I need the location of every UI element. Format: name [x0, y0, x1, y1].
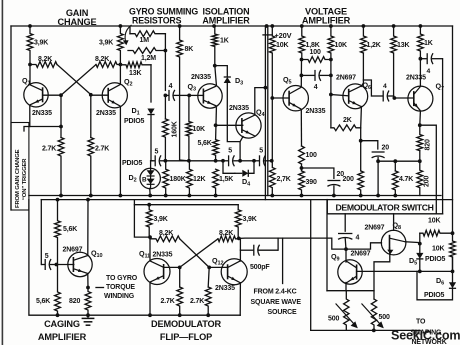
node line2/5.6K upper: [56, 198, 60, 202]
wire switch box left: [326, 200, 328, 214]
wire FF top rail: [134, 204, 238, 206]
diode pair D2 in circle: [140, 168, 160, 188]
svg-text:5,6K: 5,6K: [198, 140, 212, 147]
resistor 2.7K Q1: [58, 138, 64, 196]
label 8.2K (a): [38, 56, 52, 63]
wire 2.4KC source line: [282, 238, 284, 283]
label 2.7K (Q1): [42, 146, 56, 153]
node net 5.6K/1.5K: [214, 159, 218, 163]
transistor Q5 2N335: [283, 86, 308, 111]
node 100h right: [329, 58, 333, 62]
node Q9 collector / Q8 base: [344, 247, 348, 251]
wire 4.7K stub: [394, 161, 396, 171]
capacitor 20 (Q6 emitter): [372, 152, 385, 196]
label 1K (VA): [424, 40, 433, 47]
wire Q2 collector to circle: [119, 65, 121, 85]
svg-text:10K: 10K: [428, 218, 440, 225]
node 1.5K bus: [214, 194, 218, 198]
node 390 bus: [300, 194, 304, 198]
node 2.7K-a bus: [59, 194, 63, 198]
label 2.7K (VA): [277, 176, 291, 183]
wire Q3 emitter down: [215, 108, 218, 140]
transistor Q3 2N335: [198, 84, 222, 108]
wire Q5 base line down: [271, 98, 273, 161]
svg-text:20: 20: [382, 145, 390, 152]
node Q9base/right edge: [451, 270, 455, 274]
wire FF rail: [134, 200, 150, 238]
node Q11 emitter rail: [148, 313, 152, 317]
node rail/1K iso: [212, 24, 216, 28]
node wire161/4.7K: [393, 159, 397, 163]
svg-text:5: 5: [259, 148, 263, 155]
title GYRO SUMMING RESISTORS line1: [129, 7, 198, 17]
resistor 8.2K cross-couple a: [30, 62, 57, 68]
resistor 100 Q5 emitter: [299, 146, 305, 164]
label 2N335 (Q7): [406, 75, 426, 82]
svg-text:1,5K: 1,5K: [219, 176, 233, 183]
svg-text:5: 5: [228, 148, 232, 155]
svg-text:1K: 1K: [220, 38, 229, 45]
title DEMODULATOR FLIP-FLOP line2: [160, 332, 212, 342]
node Q7 emitter branch: [418, 123, 422, 127]
node Q2 emitter bus: [119, 194, 123, 198]
resistor 10K VA2: [328, 26, 334, 95]
label 500 (pot R): [379, 314, 390, 321]
node rail/8K: [178, 24, 182, 28]
title GAIN CHANGE line1: [66, 8, 89, 18]
resistor 2.7K VA: [269, 161, 275, 196]
svg-text:8,2K: 8,2K: [38, 56, 52, 63]
svg-text:3,9K: 3,9K: [243, 216, 257, 223]
node 4.7K bus: [393, 194, 397, 198]
wire Q8 collector to D5 node: [405, 241, 419, 244]
label 2N335 (Q12): [215, 285, 235, 292]
wire Q7 emitter to demod switch: [420, 125, 437, 214]
label 820 rotated: [425, 139, 432, 150]
title ISOLATION AMPLIFIER line1: [203, 7, 250, 17]
label TORQUE: [106, 284, 135, 291]
label D3: [235, 76, 243, 87]
svg-text:4: 4: [314, 84, 318, 91]
label +20V: [275, 31, 292, 40]
label 2K: [343, 117, 352, 124]
label 12K: [193, 176, 205, 183]
svg-text:200: 200: [343, 176, 354, 183]
label 10K (iso): [193, 126, 205, 133]
resistor 160K: [163, 119, 169, 161]
resistor 1.8K: [299, 26, 305, 60]
ground symbol: [82, 315, 95, 325]
label 4 (iso cap): [169, 83, 173, 90]
svg-text:PDIO5: PDIO5: [424, 292, 445, 299]
label 2N697 (Q8): [365, 225, 385, 232]
wire net a-b: [165, 160, 223, 162]
label Q5: [283, 75, 292, 86]
label 4 (demod cap): [427, 68, 431, 75]
svg-text:AMPLIFIER: AMPLIFIER: [38, 332, 87, 342]
resistor 820 VA: [417, 125, 423, 151]
title VOLTAGE AMPLIFIER line1: [305, 7, 347, 17]
svg-text:5: 5: [155, 149, 159, 156]
label 500 (pot L): [328, 316, 339, 323]
title GYRO SUMMING RESISTORS line2: [132, 16, 182, 26]
resistor 10K iso: [186, 95, 192, 160]
wire FF to switch over-wire: [239, 238, 346, 249]
transistor Q9 2N697: [338, 260, 362, 284]
label Q2: [124, 77, 133, 88]
wire 20cap1 branch: [302, 168, 334, 178]
svg-text:500: 500: [328, 316, 339, 323]
resistor 12K: [187, 161, 193, 196]
node pot R bottom: [372, 329, 376, 333]
label 5 (net-c): [259, 148, 263, 155]
svg-text:5,6K: 5,6K: [36, 298, 50, 305]
wire Q9 base long lead: [357, 270, 453, 272]
label 8K: [185, 46, 194, 53]
svg-text:5,6K: 5,6K: [63, 226, 77, 233]
label 10K (VA2): [335, 42, 347, 49]
svg-text:12K: 12K: [193, 176, 205, 183]
wire to gyro dash: [96, 287, 104, 289]
wire D1 to net: [150, 115, 152, 161]
wire Q4 collector to +20V line: [255, 88, 266, 115]
svg-text:820: 820: [425, 139, 432, 150]
wire Q1 collector to circle: [29, 65, 31, 85]
label ON TRIGGER rotated: [22, 158, 28, 200]
wire +20V tick: [263, 34, 272, 36]
label 1M: [140, 37, 150, 44]
wire Q8 base jog: [346, 243, 382, 249]
title DEMODULATOR FLIP-FLOP line1: [151, 319, 221, 329]
resistor 2.7K FF-R: [205, 287, 211, 315]
svg-text:2N697: 2N697: [336, 75, 356, 82]
diode D1 PD105: [147, 109, 154, 115]
node 180K bus: [164, 194, 168, 198]
wire Q10 collector up: [87, 200, 89, 255]
label 10K (demod v): [432, 246, 444, 253]
node 1M/1.2M junction: [164, 49, 168, 53]
svg-text:10K: 10K: [335, 42, 347, 49]
label 500pF: [250, 264, 270, 271]
transistor Q11 2N335: [144, 259, 170, 285]
label D4: [242, 177, 251, 188]
transistor Q10 2N697: [68, 252, 92, 276]
node 12K bus: [188, 194, 192, 198]
wire right edge D6 segment: [452, 257, 454, 282]
label 5 (caging): [45, 253, 49, 260]
svg-text:20: 20: [337, 171, 345, 178]
resistor 5.6K caging lower: [55, 265, 61, 316]
label Q9: [331, 252, 340, 263]
resistor 5.6K iso: [213, 140, 219, 161]
node rail/1.2K: [362, 24, 366, 28]
svg-text:100: 100: [306, 152, 317, 159]
wire summing node down 160K: [164, 95, 166, 119]
pot arrow right: [362, 304, 384, 329]
resistor 3.9K FF left: [146, 205, 152, 237]
svg-text:2.7K: 2.7K: [190, 298, 204, 305]
node wire161/20cap2: [376, 159, 380, 163]
node Q3 base: [187, 94, 191, 98]
wire cap4c jog: [363, 80, 371, 96]
wire Q12 collector: [239, 238, 241, 261]
label 13K: [129, 70, 141, 77]
svg-text:10K: 10K: [432, 246, 444, 253]
label SQUARE WAVE: [251, 299, 302, 306]
wire +20V vertical B: [267, 26, 269, 196]
resistor 10K VA1: [269, 26, 275, 98]
capacitor 5 net-c: [254, 155, 272, 166]
node rail +20V: [265, 24, 269, 28]
wire branch to D3: [215, 66, 228, 76]
wire 100 to 390: [301, 164, 303, 171]
label 5.6K (iso): [198, 140, 212, 147]
svg-text:+20V: +20V: [275, 31, 292, 40]
label 20 (Q6): [382, 145, 390, 152]
svg-text:SeekIC.com: SeekIC.com: [391, 329, 460, 343]
label Q3: [188, 82, 197, 93]
svg-text:SOURCE: SOURCE: [268, 309, 298, 316]
node net Q4 emitter: [238, 159, 242, 163]
node cap4a right: [329, 74, 333, 78]
label 2N335 (Q2): [96, 110, 116, 117]
wire D3 down to Q4 emitter node: [227, 84, 240, 161]
node cap4a left: [300, 74, 304, 78]
node 200a bus: [359, 194, 363, 198]
label 2N335 (Q4): [229, 105, 249, 112]
wire 8K bottom to node: [180, 159, 189, 162]
label 13K (VA): [397, 42, 409, 49]
wire Q7 emitter down: [419, 111, 422, 125]
capacitor 4 to demod: [420, 53, 442, 64]
label 1K (iso): [220, 38, 229, 45]
wire 1M left stub: [129, 27, 131, 34]
wire Q9 collector stub: [345, 249, 347, 262]
label 10K (demod h): [428, 218, 440, 225]
svg-text:1,2K: 1,2K: [367, 42, 381, 49]
svg-text:8,2K: 8,2K: [95, 56, 109, 63]
label 100 (h): [310, 49, 321, 56]
wire Q6 base lead: [331, 95, 349, 96]
wire pots bottom: [311, 329, 420, 331]
label 2N335 (Q3): [191, 74, 211, 81]
svg-text:10K: 10K: [193, 126, 205, 133]
capacitor 5 net-a: [151, 155, 166, 166]
wire main emitter bus: [29, 195, 441, 197]
label Q11: [139, 249, 150, 260]
svg-text:DEMODULATOR: DEMODULATOR: [151, 319, 221, 329]
svg-text:3,9K: 3,9K: [99, 40, 113, 47]
node 100/390/20cap1: [300, 166, 304, 170]
transistor Q6 2N697: [343, 84, 368, 109]
node Q11 collector/8.2K-L: [148, 235, 152, 239]
svg-text:AMPLIFIER: AMPLIFIER: [302, 16, 351, 26]
svg-text:8,2K: 8,2K: [159, 230, 173, 237]
wire 820 to junction: [419, 151, 421, 162]
label Q6: [363, 81, 372, 92]
svg-text:CHANGE: CHANGE: [58, 17, 97, 27]
wire D5 bottom: [419, 259, 421, 272]
wire Q4 emitter stub: [240, 137, 243, 142]
resistor 8.2K FF left: [150, 236, 180, 242]
transistor Q12 2N335: [221, 259, 247, 285]
title GAIN CHANGE line2: [58, 17, 97, 27]
node Q5 base: [270, 96, 274, 100]
transistor Q1 2N335: [24, 83, 48, 107]
resistor 1K VA: [418, 26, 424, 59]
title DEMODULATOR SWITCH: [336, 203, 434, 213]
wire +20V vertical A: [264, 26, 266, 200]
wire 500pF tap: [240, 249, 253, 251]
label Q4: [256, 108, 266, 119]
svg-text:10K: 10K: [276, 42, 288, 49]
wire D4 loop left: [223, 161, 235, 174]
resistor 2.7K FF-L: [177, 287, 183, 315]
resistor 8.2K FF right: [218, 236, 239, 242]
svg-text:2K: 2K: [343, 117, 352, 124]
resistor 4.7K: [392, 171, 398, 196]
svg-text:2N697: 2N697: [351, 251, 371, 258]
wire D2 top lead: [150, 161, 152, 169]
label 5.6K lower: [36, 298, 50, 305]
transistor Q8 2N697: [381, 230, 406, 255]
wire Q6 emitter down: [360, 107, 363, 171]
wire 500pF riser: [277, 238, 279, 250]
svg-text:100: 100: [310, 49, 321, 56]
svg-text:2N697: 2N697: [63, 247, 83, 254]
transistor Q4 2N335: [236, 113, 261, 138]
node rail/10K-va1: [270, 24, 274, 28]
title VOLTAGE AMPLIFIER line2: [302, 16, 351, 26]
wire Q12 emitter down: [239, 283, 241, 315]
label 8.2K (b): [95, 56, 109, 63]
wire Q12 base down: [208, 267, 209, 287]
svg-text:8K: 8K: [185, 46, 194, 53]
node bottom rail 5.6K: [56, 313, 60, 317]
wire Q1 base lead: [43, 94, 61, 96]
svg-text:3,9K: 3,9K: [34, 40, 48, 47]
label WINDING: [104, 293, 135, 300]
label Q12: [212, 256, 223, 267]
svg-text:FROM 2.4-KC: FROM 2.4-KC: [254, 289, 297, 296]
node rail/Q2 collector: [119, 24, 123, 28]
wire cap4e feed: [344, 214, 346, 231]
label 2.7K (FF-R): [190, 298, 204, 305]
node Q4 base on Q3 emitter line: [214, 123, 218, 127]
label 5.6K upper: [63, 226, 77, 233]
wire Q10 base lead: [56, 264, 73, 266]
label 820 (caging): [69, 298, 80, 305]
node Q3 collector / D3 branch: [213, 64, 217, 68]
node net 8K/10K/12K: [187, 159, 191, 163]
wire Q5 emitter down: [300, 110, 302, 146]
diode D6 PD105: [449, 282, 456, 288]
node rail/1K-va: [419, 24, 423, 28]
node 20cap1 bus: [332, 194, 336, 198]
capacitor 5 net-b: [223, 155, 240, 166]
resistor 13K: [120, 62, 151, 68]
capacitor 20 (390): [327, 181, 340, 196]
svg-text:PDIO5: PDIO5: [124, 118, 145, 125]
label 3.9K (Q1): [34, 40, 48, 47]
pot 500 right: [371, 299, 376, 330]
svg-text:2,7K: 2,7K: [277, 176, 291, 183]
wire 1.8K to Q5 collector: [300, 60, 302, 87]
node 2.7K FF-R rail: [206, 313, 210, 317]
node net D4 right: [252, 159, 256, 163]
wire emitter junction net: [378, 160, 420, 162]
node D2 bus: [148, 194, 152, 198]
node 10Kh right edge: [451, 231, 455, 235]
node Q6 emitter / 20cap branch: [359, 139, 363, 143]
node Q1 collector / 8.2K-a: [28, 63, 32, 67]
svg-text:4.7K: 4.7K: [399, 176, 413, 183]
svg-text:160K: 160K: [172, 121, 179, 137]
wire diagonal FF-R: [180, 239, 218, 268]
resistor 3.9K Q2 collector load: [118, 26, 124, 65]
svg-text:1,8K: 1,8K: [306, 42, 320, 49]
svg-text:TO GYRO: TO GYRO: [106, 275, 138, 282]
resistor 2K: [331, 125, 361, 131]
title CAGING AMPLIFIER line1: [44, 319, 80, 329]
node net Q5 base chain: [270, 159, 274, 163]
resistor 100 horizontal: [302, 57, 331, 63]
svg-text:2N335: 2N335: [306, 108, 326, 115]
label 2N335 (Q5): [306, 108, 326, 115]
wire Q2 base node down to 2.7K: [90, 95, 92, 138]
svg-text:2N335: 2N335: [229, 105, 249, 112]
transistor Q7 2N335: [408, 86, 433, 111]
resistor 3.9K FF right: [235, 210, 241, 239]
svg-text:4: 4: [427, 68, 431, 75]
label Q1: [22, 76, 31, 87]
svg-text:FROM GAIN CHANGE: FROM GAIN CHANGE: [15, 149, 21, 208]
label 2.7K (FF-L): [161, 298, 175, 305]
transistor Q2 2N335: [102, 83, 127, 108]
wire D4 lead: [235, 172, 242, 174]
svg-text:2N335: 2N335: [215, 285, 235, 292]
svg-text:2N335: 2N335: [153, 252, 173, 259]
label 4.7K: [399, 176, 413, 183]
label 3.9K (Q2): [99, 40, 113, 47]
svg-text:PDIO5: PDIO5: [122, 160, 143, 167]
svg-text:2N335: 2N335: [96, 110, 116, 117]
wire diagonal FF-L: [180, 239, 210, 268]
label 200 rotated (Q7): [424, 176, 431, 187]
node 2.7K-b bus: [89, 194, 93, 198]
svg-text:SQUARE WAVE: SQUARE WAVE: [251, 299, 302, 306]
label Q8: [393, 221, 402, 232]
wire Q2 emitter down to bus: [119, 107, 121, 195]
label SHAPING: [411, 330, 443, 337]
label TO GYRO: [106, 275, 138, 282]
label 1.2K: [367, 42, 381, 49]
node Q2 base: [89, 93, 93, 97]
svg-text:B: B: [142, 176, 147, 183]
label 200 (Q6): [343, 176, 354, 183]
wire net b-c: [240, 160, 254, 162]
wire Q11 emitter down: [149, 283, 151, 315]
wire x327 from line2: [326, 200, 328, 291]
wire FF rail right corner: [237, 205, 239, 210]
svg-text:2N335: 2N335: [406, 75, 426, 82]
svg-text:1,2M: 1,2M: [141, 55, 156, 62]
wire Q1 base node down to 2.7K: [60, 95, 62, 137]
label D6: [436, 276, 444, 287]
wire emitter crossbar: [327, 290, 374, 292]
svg-text:“ON” TRIGGER: “ON” TRIGGER: [22, 158, 28, 200]
wire summing junction vertical: [164, 34, 166, 91]
